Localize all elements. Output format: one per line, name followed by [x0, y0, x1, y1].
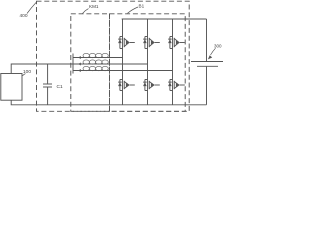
charge port lower lead: [206, 67, 208, 105]
leader 400: [27, 2, 36, 13]
svg-text:400: 400: [20, 13, 28, 19]
IGBT Q6 (phase C low side) with antiparallel diode: [168, 71, 185, 105]
wire to charge port (down right side): [206, 19, 208, 61]
dashed box 400 (drive system): [37, 1, 190, 111]
winding L2 phase B: [73, 60, 148, 66]
charge port 300 upper plate: [191, 61, 223, 63]
IGBT Q3 (phase C high side) with antiparallel diode: [168, 19, 185, 71]
IGBT Q2 (phase B high side) with antiparallel diode: [143, 19, 160, 64]
svg-text:100: 100: [23, 69, 31, 75]
dashed box B1 (inverter bridge): [110, 14, 186, 112]
battery 100: [1, 74, 22, 101]
svg-text:C1: C1: [57, 84, 63, 90]
svg-text:B1: B1: [139, 4, 145, 9]
leader 100: [23, 74, 26, 76]
motor neutral bus: [72, 54, 74, 74]
top DC+ rail: [122, 18, 207, 20]
IGBT Q5 (phase B low side) with antiparallel diode: [143, 64, 160, 105]
wire battery- / DC- bottom rail: [11, 100, 206, 105]
dashed box KM1 (motor module): [71, 14, 110, 112]
capacitor C1 lower lead: [47, 87, 49, 105]
wire battery+ to motor neutral: [11, 64, 73, 74]
leader KM1: [83, 9, 89, 14]
winding L3 phase C: [73, 66, 173, 72]
capacitor C1 upper lead: [47, 64, 49, 84]
charge port 300 lower plate: [197, 65, 218, 67]
leader B1: [128, 7, 139, 13]
winding L1 phase A: [73, 53, 123, 59]
svg-text:300: 300: [214, 43, 222, 48]
IGBT Q1 (phase A high side) with antiparallel diode: [118, 19, 135, 58]
leader 300 with arrowhead: [211, 48, 216, 55]
IGBT Q4 (phase A low side) with antiparallel diode: [118, 58, 135, 105]
capacitor C1 plates: [43, 83, 52, 85]
svg-text:KM1: KM1: [89, 4, 99, 9]
